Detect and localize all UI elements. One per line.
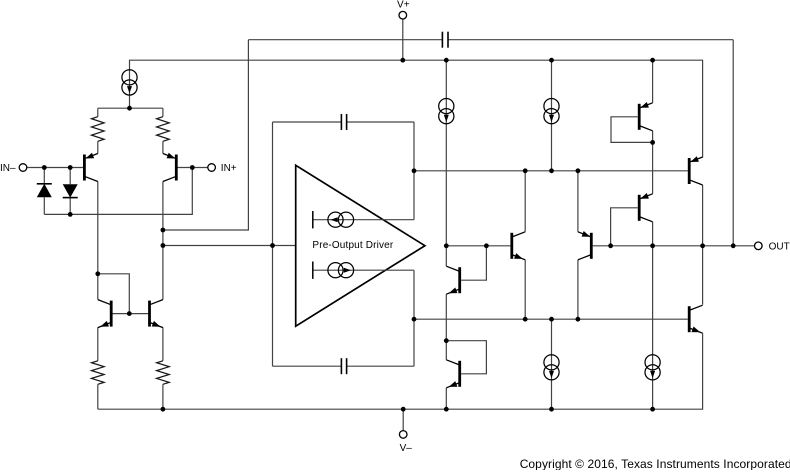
current source I3 <box>328 263 354 278</box>
terminal V+ <box>399 11 407 19</box>
wire top compensation line right <box>448 39 733 41</box>
node bus I4 junction <box>444 58 449 63</box>
node rail Q6 junction <box>444 407 449 412</box>
wire current source I4 column <box>445 60 447 246</box>
wire IN+ terminal lead <box>176 167 208 169</box>
node IN- diode D1 junction <box>42 165 47 170</box>
op-amp U1 Pre-Output Driver triangle <box>296 165 425 326</box>
wire driver box bottom edge <box>273 365 415 367</box>
wire Q5 emitter / Q6 collector column <box>445 294 447 360</box>
label IN- <box>0 163 16 174</box>
node Q5-Q6 junction <box>444 338 449 343</box>
wire R1 branch <box>97 108 99 153</box>
wire diode D1 branch <box>43 168 45 215</box>
node box lower bias junction <box>412 317 417 322</box>
wire diode bottom line to IN+ node <box>44 168 192 215</box>
wire driver box right edge upper <box>413 122 415 220</box>
node bias C Q8 junction <box>576 168 581 173</box>
node mirror base junction <box>127 311 132 316</box>
resistor R1 <box>92 117 105 142</box>
terminal V- <box>399 431 407 439</box>
diode D1 <box>37 184 52 197</box>
node bus I5 junction <box>549 58 554 63</box>
wire mirror base line <box>111 313 149 315</box>
wire V+ bus <box>130 60 703 157</box>
node bus Q10 junction <box>650 58 655 63</box>
node output Q5 base junction <box>484 243 489 248</box>
transistor Q10 <box>639 102 652 131</box>
wire V- rail <box>98 333 703 409</box>
wire Q6 emitter stub <box>445 388 447 409</box>
wire V+ terminal drop <box>402 19 404 60</box>
wire Q6 base loop <box>446 341 486 374</box>
resistor R2 <box>157 117 170 142</box>
node output Q9 base junction <box>608 243 613 248</box>
transistor Q5 <box>446 266 459 294</box>
label OUT <box>769 241 790 252</box>
transistor Q1 <box>84 153 97 182</box>
transistor Q3 <box>98 300 111 328</box>
wire driver input line <box>163 245 296 247</box>
node driver box input junction <box>270 243 275 248</box>
diode D2 <box>63 184 78 197</box>
transistor Q8 <box>578 231 591 260</box>
wire compensation feedback riser <box>163 40 249 230</box>
wire top compensation line left <box>248 39 442 41</box>
capacitor C1 <box>442 32 448 48</box>
node rail I6 junction <box>549 407 554 412</box>
wire Q3 collector-base loop <box>98 274 130 314</box>
wire Q10 base-collector loop <box>611 117 653 143</box>
node rail I7 junction <box>650 407 655 412</box>
wire upper bias line <box>414 170 688 172</box>
svg-text:IN+: IN+ <box>221 163 237 174</box>
capacitor C3 <box>341 358 346 374</box>
transistor Q6 <box>446 360 459 388</box>
wire current source I5 column <box>551 60 553 171</box>
wire Q7 emitter column <box>524 260 526 319</box>
wire Q10 emitter stub <box>652 60 654 103</box>
label V- <box>400 443 413 454</box>
wire Q10 collector / Q9 emitter column <box>652 131 654 194</box>
wire Q9 base loop <box>611 208 638 246</box>
resistor R3 <box>92 361 105 385</box>
node tail current source junction <box>127 106 132 111</box>
wire R2 branch <box>162 108 164 153</box>
node feedback tap upper <box>161 228 166 233</box>
terminal IN- <box>19 164 27 172</box>
current source I6 <box>544 355 559 380</box>
wire Q8 collector column <box>577 260 579 319</box>
node V+ junction <box>400 58 405 63</box>
transistor Q9 <box>639 193 652 222</box>
terminal OUT <box>755 242 763 250</box>
label Pre-Output Driver <box>312 240 393 251</box>
wire Q4 emitter branch <box>162 328 164 410</box>
transistor Q12 <box>689 305 702 333</box>
wire V- terminal lead <box>402 409 404 430</box>
wire Q1 collector column <box>97 182 99 300</box>
node bias D I6 junction <box>549 317 554 322</box>
node diode bottom junction <box>68 212 73 217</box>
svg-text:V+: V+ <box>397 0 410 11</box>
wire diode D2 branch <box>69 168 71 215</box>
transistor Q2 <box>163 153 176 182</box>
current source I1 <box>122 70 137 95</box>
wire output line right <box>593 245 755 247</box>
svg-text:IN–: IN– <box>0 163 16 174</box>
node Q10 collector-base junction <box>650 140 655 145</box>
transistor Q7 <box>512 232 525 260</box>
resistor R4 <box>157 361 170 385</box>
node rail V- junction <box>401 407 406 412</box>
wire Q2 collector column <box>162 182 164 300</box>
wire Q5 collector stub <box>445 246 447 266</box>
current source I7 <box>645 355 660 380</box>
node bias D Q8 junction <box>576 317 581 322</box>
wire driver box top edge <box>273 121 415 123</box>
label copyright <box>520 457 790 471</box>
wire Q3 emitter branch <box>97 328 99 410</box>
transistor Q4 <box>150 300 163 328</box>
wire output feedback drop <box>732 40 734 246</box>
node output Q11 junction <box>700 243 705 248</box>
label IN+ <box>221 163 237 174</box>
wire driver box right edge lower <box>413 270 415 366</box>
wire lower bias line <box>414 318 688 320</box>
node bias D Q7 junction <box>523 317 528 322</box>
node output Q9 collector junction <box>650 243 655 248</box>
svg-text:OUT: OUT <box>769 241 790 252</box>
terminal IN+ <box>208 164 216 172</box>
wire current source I6 column <box>551 319 553 409</box>
node output feedback junction <box>731 243 736 248</box>
node driver input tap <box>161 243 166 248</box>
current source I5 <box>544 99 559 124</box>
wire output line left <box>446 245 510 247</box>
node IN+ junction <box>190 165 195 170</box>
wire current source I2 line <box>313 211 414 228</box>
svg-text:Copyright © 2016, Texas Instru: Copyright © 2016, Texas Instruments Inco… <box>520 457 790 470</box>
wire current source I3 line <box>313 262 414 279</box>
transistor Q11 <box>689 156 702 185</box>
capacitor C2 <box>341 114 346 130</box>
current source I2 <box>328 212 354 227</box>
svg-text:V–: V– <box>400 443 413 454</box>
label V+ <box>397 0 410 11</box>
node bias C I5 junction <box>549 168 554 173</box>
current source I4 <box>439 99 454 124</box>
node Q1-Q3 collector junction <box>95 271 100 276</box>
wire Q7 collector column <box>524 171 526 232</box>
node bias C Q7 junction <box>523 168 528 173</box>
wire tail current source output line <box>98 107 163 109</box>
node output I4 junction <box>444 243 449 248</box>
wire driver box left edge <box>272 122 274 366</box>
wire IN- input line <box>27 167 85 169</box>
node box upper bias junction <box>412 168 417 173</box>
node rail R4 junction <box>161 407 166 412</box>
wire Q8 emitter column <box>577 171 579 232</box>
svg-text:Pre-Output Driver: Pre-Output Driver <box>312 240 393 251</box>
wire Q5 base loop <box>461 246 486 280</box>
wire Q9 collector / current source I7 column <box>652 222 654 409</box>
node IN- diode D2 junction <box>68 165 73 170</box>
wire Q11 collector / Q12 collector column <box>702 185 704 305</box>
